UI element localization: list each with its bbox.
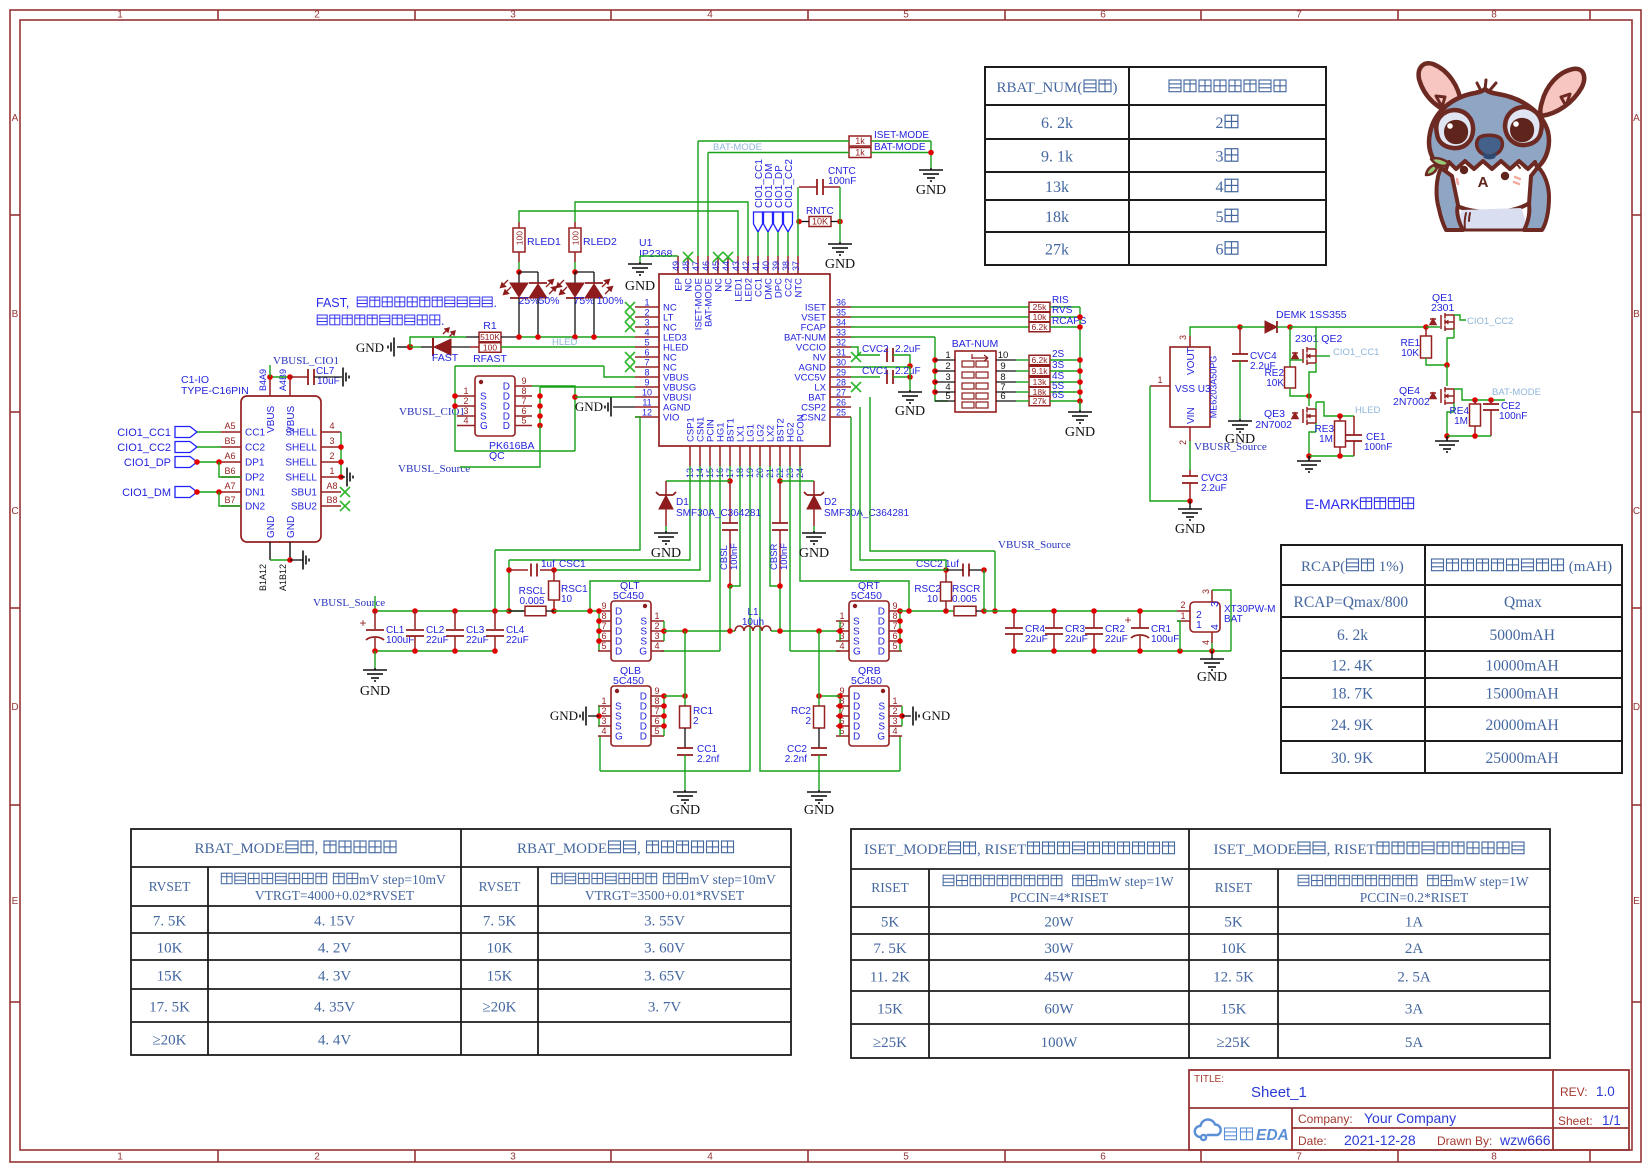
svg-text:mW step=1W: mW step=1W — [1098, 874, 1174, 889]
net port CIO1_CC1 — [754, 212, 763, 232]
net port CIO1_DM — [175, 487, 197, 498]
wire — [374, 596, 376, 611]
svg-text:mV step=10mV: mV step=10mV — [689, 872, 776, 887]
wire — [757, 232, 759, 256]
junction — [1337, 413, 1343, 419]
junction — [682, 628, 688, 634]
junction — [661, 713, 667, 719]
svg-text:1: 1 — [839, 611, 844, 621]
svg-text:FAST: FAST — [432, 352, 459, 364]
svg-text:36: 36 — [836, 298, 846, 308]
capacitor CVC1 — [887, 370, 893, 384]
junction — [1472, 433, 1478, 439]
resistor RVS — [1029, 312, 1050, 322]
svg-text:10K: 10K — [1266, 378, 1284, 389]
resistor RSC1 — [549, 581, 560, 600]
svg-text:2: 2 — [601, 706, 606, 716]
resistor RSCL — [525, 606, 546, 616]
junction — [928, 150, 934, 156]
svg-text:10K: 10K — [487, 941, 513, 957]
svg-text:≥20K: ≥20K — [482, 1000, 516, 1016]
svg-text:9.1k: 9.1k — [1031, 366, 1048, 376]
junction — [287, 557, 293, 563]
ground (BAT) — [1200, 659, 1224, 670]
U1 pin 17 BST1 — [729, 446, 731, 466]
svg-text:1: 1 — [463, 386, 468, 396]
wire — [684, 631, 686, 706]
junction — [596, 618, 602, 624]
junction — [932, 379, 938, 385]
svg-text:9: 9 — [1000, 361, 1005, 372]
wire — [532, 386, 575, 451]
no-connect X — [340, 487, 350, 497]
wire — [823, 186, 840, 188]
wire — [515, 405, 532, 407]
svg-text:3. 60V: 3. 60V — [644, 941, 685, 957]
junction — [1306, 453, 1312, 459]
svg-text:1uf: 1uf — [541, 559, 555, 570]
svg-text:100: 100 — [515, 231, 525, 245]
wire — [889, 620, 902, 622]
junction — [777, 583, 783, 589]
svg-text:HLED: HLED — [552, 337, 577, 348]
U1 pin 2 LT — [635, 316, 659, 318]
wire — [1277, 326, 1290, 328]
wire — [870, 397, 995, 551]
svg-text:1uf: 1uf — [945, 559, 959, 570]
svg-text:B8: B8 — [326, 495, 337, 505]
svg-text:TYPE-C16PIN: TYPE-C16PIN — [181, 385, 249, 397]
svg-text:2: 2 — [892, 706, 897, 716]
svg-text:11. 2K: 11. 2K — [870, 970, 910, 986]
svg-text:NTC: NTC — [794, 278, 805, 298]
svg-text:15K: 15K — [157, 969, 183, 985]
wire — [839, 187, 841, 242]
svg-text:10: 10 — [998, 350, 1009, 361]
resistor RIS — [1029, 302, 1050, 312]
svg-text:39: 39 — [771, 261, 781, 271]
resistor RE1 — [1421, 336, 1432, 358]
wire — [818, 755, 820, 790]
svg-text:A5: A5 — [224, 421, 235, 431]
wire — [813, 509, 815, 526]
wire — [599, 736, 601, 771]
wire — [515, 425, 532, 427]
svg-text:B7: B7 — [224, 495, 235, 505]
svg-text:3: 3 — [1178, 335, 1188, 340]
U1 pin 31 NV — [830, 356, 851, 358]
svg-text:6: 6 — [654, 716, 659, 726]
svg-text:4: 4 — [1201, 640, 1211, 645]
junction — [682, 693, 688, 699]
wire — [664, 695, 685, 697]
junction — [907, 374, 913, 380]
resistor R BAT-MODE — [849, 148, 871, 158]
svg-text:24. 9K: 24. 9K — [1331, 717, 1374, 734]
junction — [1077, 389, 1083, 395]
svg-text:3: 3 — [510, 1152, 516, 1163]
wire — [1490, 410, 1492, 436]
wire — [197, 491, 221, 493]
wire — [651, 695, 664, 697]
svg-text:20W: 20W — [1044, 915, 1074, 931]
capacitor CBSR — [772, 523, 788, 530]
svg-text:REV:: REV: — [1560, 1085, 1588, 1099]
junction — [1177, 648, 1183, 654]
wire — [813, 526, 815, 531]
svg-text:26: 26 — [836, 398, 846, 408]
svg-text:GND: GND — [360, 684, 390, 699]
svg-text:100nF: 100nF — [1499, 411, 1527, 422]
junction — [194, 489, 200, 495]
svg-text:EDA: EDA — [1256, 1127, 1289, 1144]
wire — [818, 631, 820, 706]
wire — [1447, 412, 1454, 436]
svg-text:30: 30 — [836, 358, 846, 368]
ground flag (FAST) — [388, 338, 394, 357]
junction — [837, 703, 843, 709]
svg-text:1A: 1A — [1405, 915, 1424, 931]
svg-text:BAT-NUM: BAT-NUM — [952, 338, 998, 350]
wire — [270, 559, 290, 561]
svg-text:5: 5 — [903, 1152, 909, 1163]
svg-text:A: A — [1478, 174, 1489, 191]
wire — [540, 386, 635, 388]
wire — [1239, 327, 1241, 354]
wire — [374, 651, 376, 668]
wire — [598, 725, 611, 727]
wire — [1316, 355, 1330, 357]
svg-text:2: 2 — [329, 451, 334, 461]
ground (CL1) — [363, 668, 387, 681]
svg-text:CSC1: CSC1 — [559, 559, 586, 570]
U1 pin 7 NC — [635, 366, 659, 368]
wire — [983, 570, 985, 611]
lead — [1139, 611, 1141, 628]
wire — [889, 735, 902, 737]
svg-text:100uF: 100uF — [1151, 634, 1179, 645]
wire — [1212, 590, 1231, 651]
wire — [1050, 306, 1080, 308]
svg-text:6: 6 — [1100, 1152, 1106, 1163]
U1 pin 47 ISET-MODE — [697, 256, 699, 274]
svg-text:3. 7V: 3. 7V — [648, 1000, 682, 1016]
junction — [287, 374, 293, 380]
junction — [1209, 648, 1215, 654]
junction — [796, 219, 802, 225]
wire — [600, 466, 750, 771]
junction — [1011, 648, 1017, 654]
U1 pin 33 BAT-NUM — [830, 336, 851, 338]
wire — [515, 415, 532, 417]
lead — [494, 636, 496, 651]
wire — [509, 466, 690, 560]
wire — [518, 272, 520, 283]
svg-text:6: 6 — [1216, 242, 1224, 259]
svg-text:27k: 27k — [1045, 242, 1069, 259]
wire — [969, 569, 984, 571]
wire — [598, 640, 611, 642]
ground (QE4) — [1435, 436, 1459, 452]
wire — [871, 140, 931, 142]
wire — [1315, 402, 1317, 409]
U1 pin 3 NC — [635, 326, 659, 328]
svg-text:33: 33 — [836, 328, 846, 338]
svg-text:0.005: 0.005 — [952, 594, 977, 605]
wire — [902, 715, 911, 717]
wire — [269, 542, 271, 560]
connector C1-IO TYPE-C16PIN body — [241, 396, 321, 542]
wire — [836, 735, 849, 737]
wire — [836, 725, 849, 727]
wire — [800, 466, 909, 611]
svg-text:DP2: DP2 — [245, 473, 265, 484]
wire — [889, 640, 902, 642]
svg-text:11: 11 — [642, 398, 651, 408]
svg-text:2021-12-28: 2021-12-28 — [1344, 1132, 1416, 1148]
IC QC PK616BA body — [475, 376, 515, 436]
lead — [1093, 634, 1095, 651]
svg-text:CIO1_DM: CIO1_DM — [122, 487, 171, 499]
resistor RSCR — [954, 606, 976, 616]
svg-text:Date:: Date: — [1298, 1134, 1327, 1148]
wire — [598, 610, 611, 612]
svg-text:A: A — [12, 113, 19, 124]
wire — [730, 466, 740, 586]
wire — [553, 600, 555, 611]
wire — [799, 186, 817, 188]
wire — [935, 337, 948, 401]
svg-text:28: 28 — [836, 378, 846, 388]
svg-text:10K: 10K — [812, 217, 828, 227]
svg-text:G: G — [480, 421, 488, 432]
net port CIO1_DM — [764, 212, 773, 232]
svg-text:10K: 10K — [1221, 941, 1247, 957]
svg-text:38: 38 — [781, 261, 791, 271]
wire — [708, 152, 849, 154]
wire — [836, 650, 849, 652]
svg-text:4: 4 — [707, 10, 713, 21]
svg-text:100nF: 100nF — [779, 543, 790, 570]
junction — [727, 478, 733, 484]
junction — [372, 608, 378, 614]
svg-text:Drawn By:: Drawn By: — [1437, 1134, 1492, 1148]
wire — [1211, 590, 1213, 602]
U1 pin 34 FCAP — [830, 326, 851, 328]
wire — [421, 346, 432, 348]
wire — [537, 272, 539, 283]
wire — [871, 152, 931, 154]
resistor RNTC — [809, 217, 831, 227]
svg-text:GND: GND — [922, 708, 950, 723]
svg-text:HLED: HLED — [1355, 405, 1380, 416]
junction — [1444, 362, 1450, 368]
svg-text:6: 6 — [521, 406, 526, 416]
wire — [1353, 441, 1355, 456]
U1 pin 49 EP — [677, 256, 679, 274]
ground flag (QLB) — [580, 707, 586, 726]
svg-text:100: 100 — [571, 231, 581, 245]
junction — [596, 628, 602, 634]
svg-text:VBUSL_Source: VBUSL_Source — [398, 463, 470, 475]
svg-text:6: 6 — [1000, 391, 1005, 402]
svg-text:12: 12 — [642, 408, 652, 418]
junction — [837, 713, 843, 719]
svg-text:29: 29 — [836, 368, 846, 378]
wire — [197, 461, 221, 463]
annotation FAST line2 — [317, 315, 327, 325]
junction — [897, 618, 903, 624]
wire — [1339, 447, 1341, 456]
svg-text:D: D — [1633, 702, 1640, 713]
svg-text:≥25K: ≥25K — [1216, 1035, 1250, 1051]
wire — [221, 461, 241, 463]
svg-text:15K: 15K — [487, 969, 513, 985]
wire — [554, 610, 598, 612]
transistor QE4 2N7002 — [1430, 387, 1454, 405]
wire — [790, 650, 840, 652]
junction — [897, 608, 903, 614]
wire — [495, 417, 640, 550]
wire — [819, 695, 840, 697]
svg-text:27k: 27k — [1033, 396, 1047, 406]
svg-text:RVSET: RVSET — [149, 879, 191, 894]
wire — [375, 610, 525, 612]
junction — [897, 628, 903, 634]
lead — [374, 638, 376, 651]
IC U1 IP2368 body — [659, 274, 830, 446]
wire — [221, 491, 241, 493]
wire — [780, 480, 814, 482]
wire — [893, 376, 910, 378]
svg-text:2: 2 — [805, 716, 811, 727]
junction — [907, 363, 913, 369]
wire — [1353, 416, 1355, 435]
wire — [1447, 435, 1491, 437]
svg-text:9: 9 — [601, 601, 606, 611]
junction — [338, 444, 344, 450]
wire — [818, 728, 820, 748]
svg-text:25k: 25k — [1033, 302, 1047, 312]
wire — [976, 610, 984, 612]
wire — [1309, 432, 1316, 456]
svg-text:3: 3 — [510, 10, 516, 21]
wire — [518, 298, 520, 337]
wire — [729, 466, 731, 481]
svg-text:ISET-MODE: ISET-MODE — [874, 130, 929, 141]
svg-text:9: 9 — [654, 686, 659, 696]
wire — [901, 706, 903, 726]
wire — [574, 272, 576, 283]
resistor RE3 — [1335, 421, 1346, 447]
wire — [984, 610, 1177, 612]
wire — [839, 621, 841, 641]
svg-text:100W: 100W — [1041, 1035, 1079, 1051]
wire — [797, 187, 799, 256]
svg-text:RBAT_MODE: RBAT_MODE — [517, 841, 607, 857]
svg-text:RCAP(: RCAP( — [1301, 559, 1345, 575]
wire — [289, 378, 291, 396]
svg-text:35: 35 — [836, 308, 846, 318]
U1 pin 45 NC — [717, 256, 719, 274]
svg-text:GND: GND — [799, 546, 829, 561]
svg-text:DP1: DP1 — [245, 458, 265, 469]
svg-text:2: 2 — [314, 1152, 320, 1163]
wire — [996, 370, 1016, 372]
wire — [729, 530, 731, 586]
svg-text:GND: GND — [895, 404, 925, 419]
junction — [412, 648, 418, 654]
resistor RE4 — [1470, 404, 1481, 426]
no-connect X — [625, 312, 635, 322]
wire — [893, 355, 910, 366]
junction — [551, 608, 557, 614]
svg-text:40: 40 — [761, 261, 771, 271]
svg-text:1: 1 — [1157, 375, 1162, 385]
U1 pin 46 BAT-MODE — [707, 256, 709, 274]
junction — [537, 403, 543, 409]
junction — [1077, 324, 1083, 330]
svg-text:mW step=1W: mW step=1W — [1453, 874, 1529, 889]
svg-text:100: 100 — [483, 343, 497, 353]
svg-text:2: 2 — [314, 10, 320, 21]
wire — [664, 630, 735, 632]
wire — [1016, 391, 1029, 393]
wire — [321, 446, 341, 448]
junction — [1337, 453, 1343, 459]
junction — [661, 693, 667, 699]
wire QRT D common — [899, 611, 901, 651]
junction — [943, 608, 949, 614]
capacitor CE1 — [1346, 435, 1362, 441]
svg-text:2.2uF: 2.2uF — [1201, 483, 1227, 494]
svg-text:17. 5K: 17. 5K — [149, 1000, 190, 1016]
svg-text:PCCIN=4*RISET: PCCIN=4*RISET — [1010, 890, 1109, 905]
wire — [1446, 365, 1448, 386]
junction — [1077, 357, 1083, 363]
wire — [996, 381, 1016, 383]
wire — [1211, 643, 1213, 651]
wire — [269, 365, 271, 377]
wire — [340, 432, 342, 477]
capacitor CBSL — [722, 523, 738, 530]
no-connect X — [851, 352, 861, 362]
svg-text:48: 48 — [681, 261, 691, 271]
wire — [575, 396, 635, 398]
svg-text:10: 10 — [561, 594, 573, 605]
svg-text:22uF: 22uF — [1025, 634, 1048, 645]
wire — [321, 505, 341, 507]
U1 pin 24 PCON — [799, 446, 801, 466]
wire — [537, 298, 539, 337]
svg-text:2.2nf: 2.2nf — [785, 754, 807, 765]
wire — [1177, 620, 1190, 622]
svg-text:22uF: 22uF — [1065, 634, 1088, 645]
wire — [397, 346, 410, 348]
junction — [1091, 608, 1097, 614]
svg-text:1: 1 — [1180, 611, 1185, 621]
svg-text:1M: 1M — [1454, 416, 1468, 427]
svg-text:SHELL: SHELL — [285, 473, 317, 484]
U1 pin 16 HG1 — [719, 446, 721, 466]
wire — [651, 705, 664, 707]
wire — [1079, 307, 1081, 410]
wire — [836, 715, 849, 717]
wire — [1289, 327, 1291, 367]
svg-text:VBUS: VBUS — [266, 405, 277, 433]
svg-text:25000mAH: 25000mAH — [1486, 750, 1559, 767]
wire — [501, 336, 519, 338]
